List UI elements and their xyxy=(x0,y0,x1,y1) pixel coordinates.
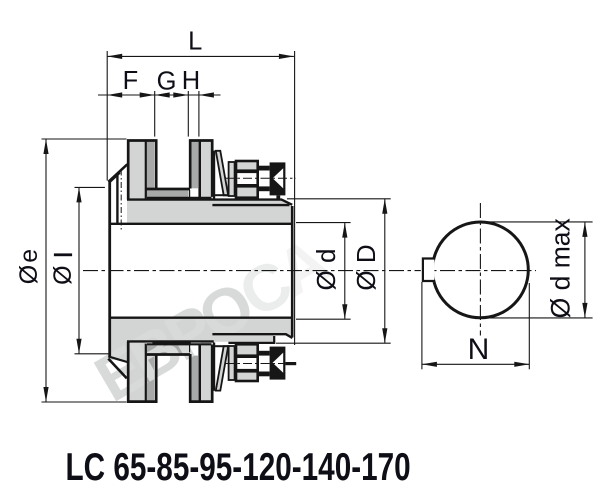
top disc spring xyxy=(216,151,228,196)
hub bottom flange slab (full) xyxy=(127,318,292,341)
shaft cross-section circle xyxy=(433,222,529,318)
top bolt washer column xyxy=(229,162,235,196)
top clamp inner lines xyxy=(145,141,147,199)
top bolt head washer xyxy=(259,166,270,171)
hub top flange slab (clamp zone) xyxy=(127,200,214,224)
main centerline xyxy=(83,270,536,272)
bottom lip strip xyxy=(214,336,274,342)
O d arrows xyxy=(342,223,347,238)
top clamp bar top edge xyxy=(146,188,190,191)
bottom bolt washer column xyxy=(229,346,235,380)
bottom clamp right upright light part xyxy=(201,342,211,402)
top bolt nut block xyxy=(236,161,258,198)
bottom disc spring outline xyxy=(216,346,228,391)
collar dashed axis xyxy=(120,170,122,232)
bore top / bottom lines xyxy=(110,223,293,225)
svg-text:Ø d: Ø d xyxy=(311,249,341,291)
bottom clamp outline left upright xyxy=(128,341,156,401)
bottom bolt nut block inner bands xyxy=(236,369,258,373)
bottom clamp U bar dark xyxy=(145,345,188,353)
bottom clamp outline right upright xyxy=(190,345,212,402)
recess left edges xyxy=(213,151,215,199)
bottom bolt axis xyxy=(226,363,286,365)
circle vertical centerline xyxy=(479,203,481,336)
bottom-left solid collar/cone section xyxy=(110,318,128,378)
top clamp right upright light part xyxy=(201,140,211,199)
H arrow (outside right) xyxy=(199,92,214,97)
svg-text:Ø: Ø xyxy=(49,265,77,284)
bottom clamp inner lines xyxy=(145,344,147,402)
top disc spring outline xyxy=(216,151,228,196)
F/G/H dimension line xyxy=(98,94,221,96)
bottom slab line at clamp zone + lip line A' xyxy=(127,340,214,342)
top bolt head xyxy=(270,162,286,195)
right face xyxy=(291,206,294,337)
hub top flange slab (bolt zone, below lip) xyxy=(214,206,292,224)
O d max dimension xyxy=(584,222,586,318)
bottom clamp bar bottom edge xyxy=(146,353,190,356)
bottom disc spring xyxy=(216,346,228,391)
svg-text:Ø d max: Ø d max xyxy=(545,218,575,318)
bottom bolt head xyxy=(270,347,286,380)
O e arrows xyxy=(43,139,48,154)
G arrows xyxy=(155,92,170,97)
L dimension xyxy=(107,55,294,57)
top collar tapped-hole interior (white) xyxy=(111,176,126,223)
keyway notch xyxy=(423,259,435,282)
bottom bolt nut block xyxy=(236,344,258,381)
svg-text:LC 65-85-95-120-140-170: LC 65-85-95-120-140-170 xyxy=(66,446,411,486)
top recess floor xyxy=(215,194,229,196)
N dimension xyxy=(422,363,529,365)
left face xyxy=(108,181,111,357)
top clamp outline left upright xyxy=(128,141,156,200)
top bolt nut block inner bands xyxy=(236,169,258,173)
bottom bolt key bar xyxy=(285,362,296,365)
top lip line B (slab top in bolt zone) xyxy=(212,204,289,206)
O I arrows xyxy=(76,187,81,202)
top bolt axis xyxy=(226,177,296,179)
bottom cone white sliver xyxy=(110,359,126,378)
O I dimension xyxy=(78,187,80,353)
svg-text:Ø e: Ø e xyxy=(15,250,43,284)
svg-text:G: G xyxy=(157,68,177,96)
O d max arrows xyxy=(582,222,587,237)
bottom clamp right upright dark stripe xyxy=(192,356,198,402)
bottom recess floor xyxy=(215,345,229,347)
O D dimension xyxy=(384,199,386,343)
N arrows xyxy=(422,362,437,367)
bottom bolt head washer xyxy=(259,351,270,356)
bottom clamp left upright light xyxy=(128,342,145,402)
svg-text:H: H xyxy=(182,67,200,95)
bottom slab line B' xyxy=(212,334,292,338)
O d dimension xyxy=(344,223,346,320)
F arrows xyxy=(107,92,122,97)
top clamp U bar (dark) xyxy=(145,190,188,197)
top white square under right stripe xyxy=(190,190,199,198)
collar inner vertical xyxy=(116,175,118,223)
bottom cone diagonals xyxy=(108,359,127,379)
top clamp right upright dark stripe xyxy=(192,140,198,188)
O D arrows xyxy=(382,199,387,214)
bottom clamp left upright dark stripe xyxy=(147,356,154,402)
top lip strip xyxy=(214,200,288,204)
O e dimension xyxy=(45,139,47,402)
top clamp ring left upright (light) xyxy=(128,140,145,199)
svg-text:Ø D: Ø D xyxy=(351,244,381,290)
bottom white square xyxy=(190,345,199,353)
top cone diagonals xyxy=(108,164,127,182)
slab top line / top lip line A xyxy=(127,200,292,205)
top clamp left upright dark stripe xyxy=(147,140,154,188)
svg-text:N: N xyxy=(468,333,490,366)
L arrows xyxy=(107,54,122,59)
top clamp outline right upright xyxy=(190,141,212,197)
svg-text:F: F xyxy=(123,67,139,95)
svg-text:L: L xyxy=(188,28,202,56)
